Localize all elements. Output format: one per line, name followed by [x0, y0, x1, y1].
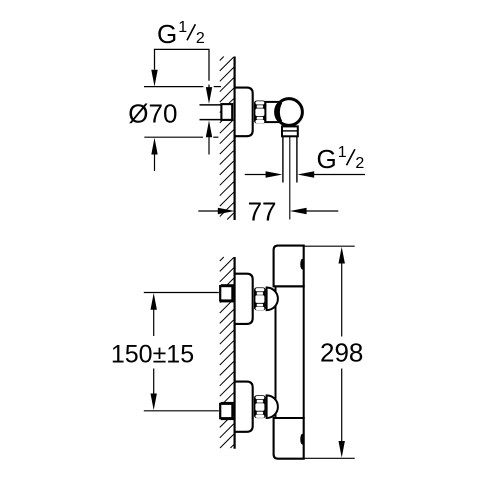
G1/2 leader bracket	[155, 49, 210, 91]
wall surface line (top drawing)	[234, 57, 236, 221]
dimension 77 (wall to pipe center)	[198, 210, 338, 212]
wall surface line (bottom drawing)	[234, 257, 236, 449]
top inlet union: dome boss	[267, 288, 278, 311]
supply pipe in wall (two horizontal lines)	[200, 104, 222, 106]
boss crescent at circle left	[278, 102, 281, 121]
svg-text:G: G	[317, 144, 337, 174]
connector cylinder to valve	[265, 102, 279, 122]
bottom inlet union: union nut	[254, 395, 266, 418]
bottom inlet union: escutcheon	[235, 382, 253, 432]
pipe union square in wall	[230, 104, 235, 119]
svg-text:298: 298	[320, 338, 363, 368]
wall hatch (plan view wall)	[220, 257, 234, 448]
mixer body tube	[276, 286, 304, 418]
top inlet union: escutcheon	[235, 274, 253, 324]
svg-text:Ø70: Ø70	[128, 99, 177, 129]
top inlet union: wall pipe square	[221, 285, 234, 301]
svg-text:2: 2	[355, 155, 364, 172]
pipe centerline	[289, 137, 291, 220]
knob mark bottom	[300, 434, 304, 445]
svg-text:G: G	[157, 19, 177, 49]
svg-text:2: 2	[196, 30, 205, 47]
wall hatch (top view wall)	[220, 57, 234, 220]
dimension G1/2 of pipe	[245, 174, 365, 176]
mixer body top cap	[274, 246, 304, 287]
dimension 298 extension lines	[304, 246, 355, 458]
valve body circle	[276, 99, 303, 126]
bottom inlet union: dome boss	[267, 395, 278, 418]
knob mark top	[300, 259, 304, 270]
svg-text:1: 1	[338, 144, 347, 161]
top inlet union: union nut	[254, 287, 266, 310]
svg-text:77: 77	[248, 197, 277, 227]
union nut (side view)	[254, 101, 266, 124]
bottom inlet union: wall pipe square	[221, 403, 234, 419]
dimension 150±15 extension lines	[144, 293, 219, 411]
escutcheon flange on wall	[235, 88, 253, 137]
outlet down pipe	[282, 136, 284, 182]
dimension lines Ø70 extension	[144, 87, 221, 171]
svg-text:150±15: 150±15	[111, 340, 194, 368]
outlet collar	[282, 126, 298, 136]
mixer body bottom cap	[274, 418, 304, 459]
svg-text:1: 1	[178, 19, 187, 36]
